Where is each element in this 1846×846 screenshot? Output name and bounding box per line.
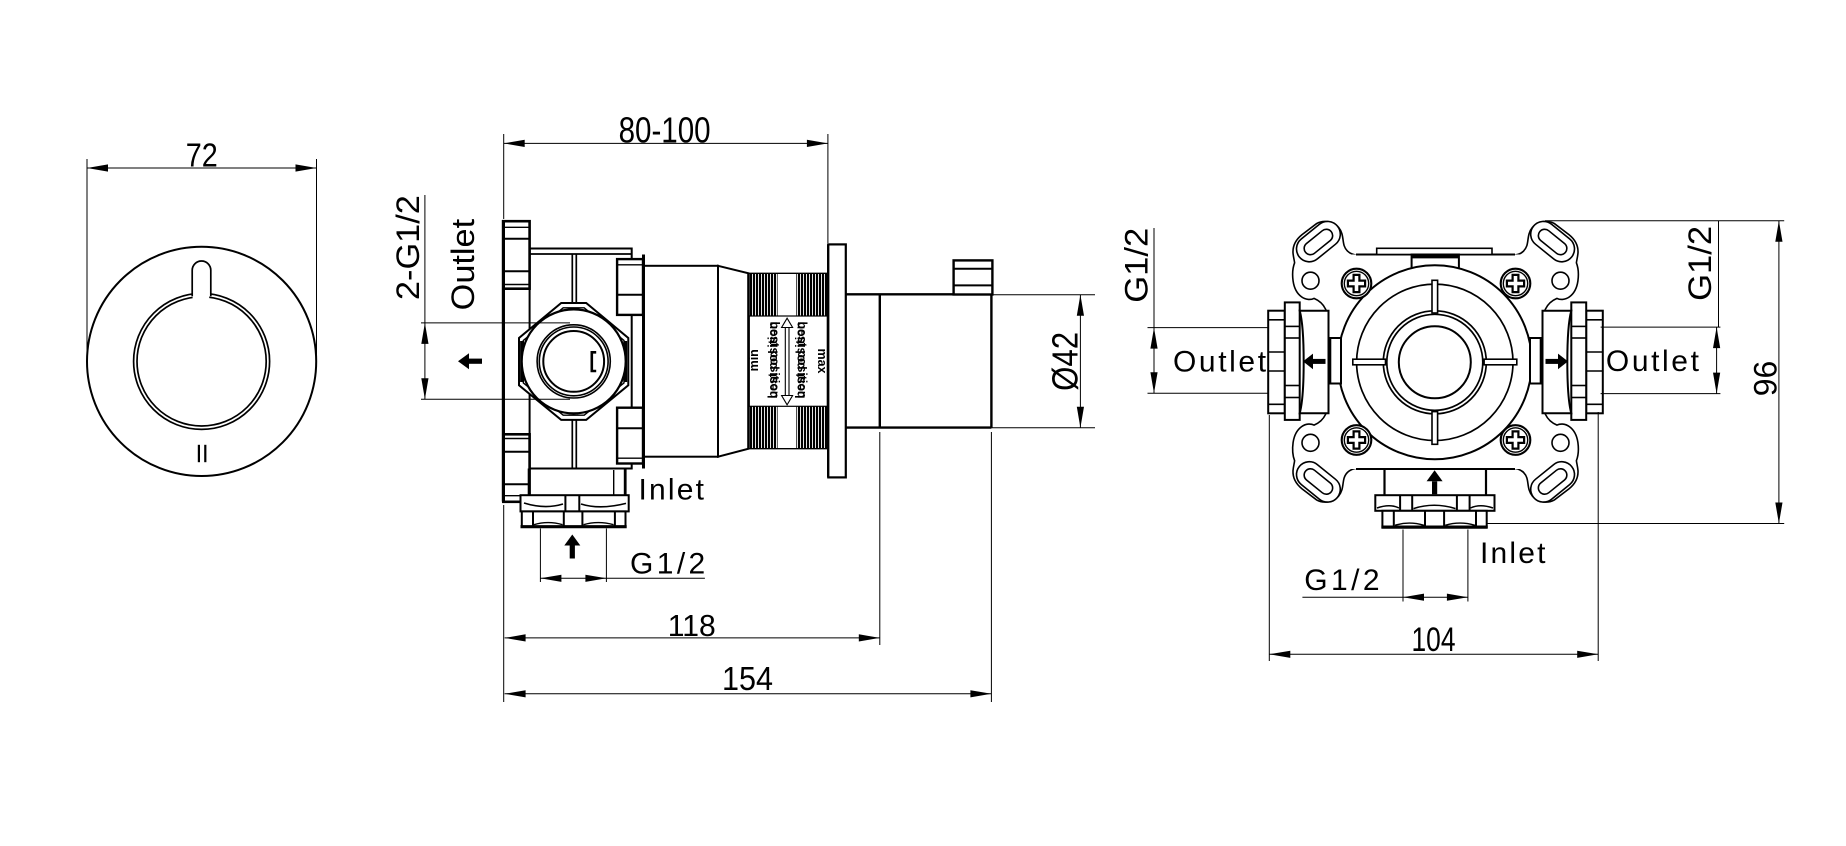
dimension 96: extension lines (1545, 220, 1784, 222)
cartridge collar inner circle (1387, 314, 1483, 410)
dimension 154: arrowheads (505, 690, 526, 697)
svg-text:Inlet: Inlet (639, 473, 707, 506)
thread section top edge (749, 272, 829, 274)
mounting plate front face thick line (502, 220, 505, 502)
inlet washer facets (right view) (1399, 495, 1401, 511)
trim sleeve cylinder bottom edge (846, 426, 992, 428)
mounting plate upper tab facet lines (503, 226, 529, 228)
handle knob facet lines (954, 268, 993, 270)
position mark II (198, 445, 200, 462)
top clamp tab (1412, 255, 1459, 269)
thread section left edge thick (747, 273, 750, 448)
dimension 96: dimension line (1778, 221, 1780, 524)
inlet neck (right view) (1383, 469, 1385, 495)
keyhole slot outline (192, 261, 211, 296)
bore circle (1399, 326, 1471, 398)
outlet flow arrow left (right view) (1303, 354, 1313, 370)
dimension 72: extension lines (86, 159, 88, 362)
svg-text:best position: best position (795, 322, 809, 399)
label range arrow open heads (782, 318, 793, 405)
thread section bottom edge (749, 448, 829, 450)
dimension 118: extension lines (503, 505, 505, 645)
outlet stub left (right view) (1329, 338, 1342, 384)
valve body top second line (530, 253, 632, 255)
dimension outlet left: dimension line (1153, 328, 1155, 394)
dimension 104: arrowheads (1269, 651, 1290, 658)
inlet hex nut (522, 511, 626, 526)
trim sleeve cylinder top edge (846, 293, 992, 295)
inlet hex nut bottom thick edge (521, 525, 627, 528)
thread band upper-right (796, 274, 827, 317)
svg-text:G1/2: G1/2 (1304, 564, 1383, 597)
dimension 72: arrowheads (87, 164, 108, 171)
dimension G1/2 bottom: dimension+leader line (1302, 596, 1468, 598)
lower clamp bracket facet lines (617, 457, 643, 459)
dimension Ø42: dimension line (1079, 295, 1081, 428)
dimension 104: dimension line (1269, 653, 1598, 655)
svg-text:min: min (747, 349, 761, 371)
svg-text:Ø42: Ø42 (1045, 332, 1086, 391)
bracket plate right edge (1542, 313, 1544, 411)
mounting plate lower tab (503, 434, 529, 502)
thread band upper-left (749, 274, 777, 317)
dimension 154: dimension line (505, 693, 992, 695)
bracket ear bottom-left (1291, 392, 1360, 508)
svg-text:G1/2: G1/2 (630, 548, 709, 581)
dimension 118: arrowheads (505, 634, 526, 641)
inlet washer ring (521, 495, 629, 511)
dimension G1/2 middle: dimension+leader line (540, 577, 705, 579)
dimension 2-G1/2: arrowheads (421, 323, 428, 344)
outlet port bore circle (543, 331, 604, 392)
dimension 80-100: dimension line (504, 142, 828, 144)
dimension G1/2 middle: arrowheads (540, 575, 561, 582)
inlet flow arrow (right view) (1427, 470, 1443, 481)
dimension 104: extension lines (1268, 415, 1270, 661)
outlet port key mark (592, 352, 596, 371)
bracket plate fill (1329, 255, 1543, 470)
bracket ear top-right (1511, 216, 1580, 332)
cartridge collar outer circle (1383, 311, 1486, 414)
dimension 154: extension line right (990, 432, 992, 702)
svg-text:Inlet: Inlet (1480, 537, 1548, 570)
inlet hex nut facets (right view) (1393, 511, 1395, 527)
svg-text:104: 104 (1412, 621, 1456, 659)
inlet hex nut facets (532, 511, 534, 526)
svg-text:80-100: 80-100 (619, 110, 711, 151)
svg-text:118: 118 (668, 608, 716, 643)
cartridge housing left edge thick (642, 255, 645, 469)
outlet connector left (right view) (1268, 302, 1328, 420)
svg-text:72: 72 (186, 136, 218, 173)
dimension Ø42: arrowheads (1077, 295, 1084, 316)
valve stem lines lower (571, 420, 573, 469)
dimension 72: dimension line (87, 167, 317, 169)
handle knob (954, 260, 993, 294)
inlet hex nut bottom thick edge (right view) (1381, 525, 1487, 528)
outlet port thread circle inner (539, 327, 608, 396)
outlet connector right (right view) (1543, 302, 1603, 420)
dimension 2-G1/2: extension lines (421, 322, 570, 324)
dimension outlet left: arrowheads (1150, 328, 1157, 349)
dimension outlet right: arrowheads (1713, 327, 1720, 348)
svg-text:Outlet: Outlet (445, 219, 481, 311)
dimension 80-100: extension lines (503, 134, 505, 219)
upper clamp bracket facet lines (617, 264, 643, 266)
valve front big circle (1338, 265, 1532, 459)
inlet flow arrow (middle view) (564, 535, 580, 546)
bracket ear bottom-right (1511, 392, 1580, 508)
svg-text:max: max (815, 348, 829, 373)
depth label box (749, 316, 827, 406)
outlet port outer circle (522, 309, 626, 413)
trim plate outer circle (87, 247, 316, 476)
dimension 96: arrowheads (1775, 221, 1782, 242)
valve stem lines upper (571, 254, 573, 303)
outlet stub right (right view) (1530, 338, 1543, 384)
dimension 118: dimension line (505, 637, 880, 639)
dimension G1/2 middle: extension lines (539, 529, 541, 583)
cartridge cross spokes (1432, 280, 1438, 313)
outlet flow arrow (middle view) (458, 353, 469, 369)
taper section (718, 266, 749, 457)
phillips screw at (1356.5,440.0) (1342, 425, 1372, 455)
outlet port flat chamfer bars (520, 341, 523, 382)
outlet flow arrow right (right view) (1558, 354, 1568, 370)
bracket ear top-left (1291, 216, 1360, 332)
bracket plate left edge (1327, 313, 1329, 411)
phillips screw at (1356.5,283.5) (1342, 269, 1372, 299)
valve body block (530, 249, 632, 469)
knob inner ring inner circle (137, 297, 266, 426)
inlet washer ring (right view) (1375, 495, 1494, 511)
phillips screw at (1515.5,440.0) (1501, 425, 1531, 455)
dimension outlet left: extension lines (1148, 327, 1268, 329)
phillips screw at (1515.5,283.5) (1501, 269, 1531, 299)
outlet port hex inner chamfer line (523, 308, 624, 415)
top clamp tab thick edge (1412, 255, 1459, 259)
knob inner ring outer circle (134, 293, 270, 429)
svg-text:best position: best position (767, 322, 781, 399)
dimension 80-100: arrowheads (504, 140, 525, 147)
dimension Ø42: extension lines (993, 294, 1096, 296)
valve front ring circle (1357, 284, 1513, 440)
lower clamp bracket (617, 408, 643, 464)
svg-text:154: 154 (722, 661, 773, 698)
svg-text:G1/2: G1/2 (1119, 228, 1155, 303)
outlet port hex chamfer shading (577, 310, 621, 338)
thread section right edge thick (827, 244, 830, 477)
mounting plate upper tab (503, 221, 529, 289)
bracket plate top edge (1356, 254, 1515, 256)
svg-text:Outlet: Outlet (1606, 345, 1702, 378)
trim sleeve cylinder right edge (990, 294, 992, 427)
dimension 2-G1/2: dimension+leader line (424, 195, 426, 399)
label range arrow shaft (784, 328, 786, 396)
trim sleeve section line (879, 294, 881, 427)
outlet port thread circle outer (537, 325, 610, 398)
dimension G1/2 top-right: leader line (1718, 221, 1720, 327)
dimension outlet right: dimension line (1716, 327, 1718, 394)
inlet neck (528, 469, 530, 496)
svg-text:Outlet: Outlet (1173, 346, 1269, 379)
top clamp bar (1377, 248, 1492, 254)
keyhole slot white patch (193, 288, 210, 301)
dimension outlet right: extension lines (1601, 326, 1721, 328)
thread band lower-left (749, 406, 777, 448)
upper clamp bracket (617, 259, 643, 315)
svg-text:G1/2: G1/2 (1682, 226, 1718, 301)
dimension G1/2 top-left: leader line (1153, 228, 1155, 328)
dimension G1/2 bottom: arrowheads (1403, 594, 1424, 601)
inlet washer facets (564, 495, 566, 511)
wall flange (828, 244, 846, 477)
svg-text:96: 96 (1748, 361, 1784, 397)
thread band lower-right (796, 406, 827, 448)
cartridge housing block (644, 266, 719, 457)
mounting plate lower tab facet lines (503, 495, 529, 497)
inlet hex nut (right view) (1382, 511, 1486, 527)
dimension 154: extension line left (503, 645, 505, 702)
bracket plate bottom edge (1356, 468, 1515, 470)
svg-text:2-G1/2: 2-G1/2 (390, 195, 426, 300)
dimension G1/2 bottom: extension lines (1402, 530, 1404, 602)
outlet port hex nut (519, 303, 628, 420)
